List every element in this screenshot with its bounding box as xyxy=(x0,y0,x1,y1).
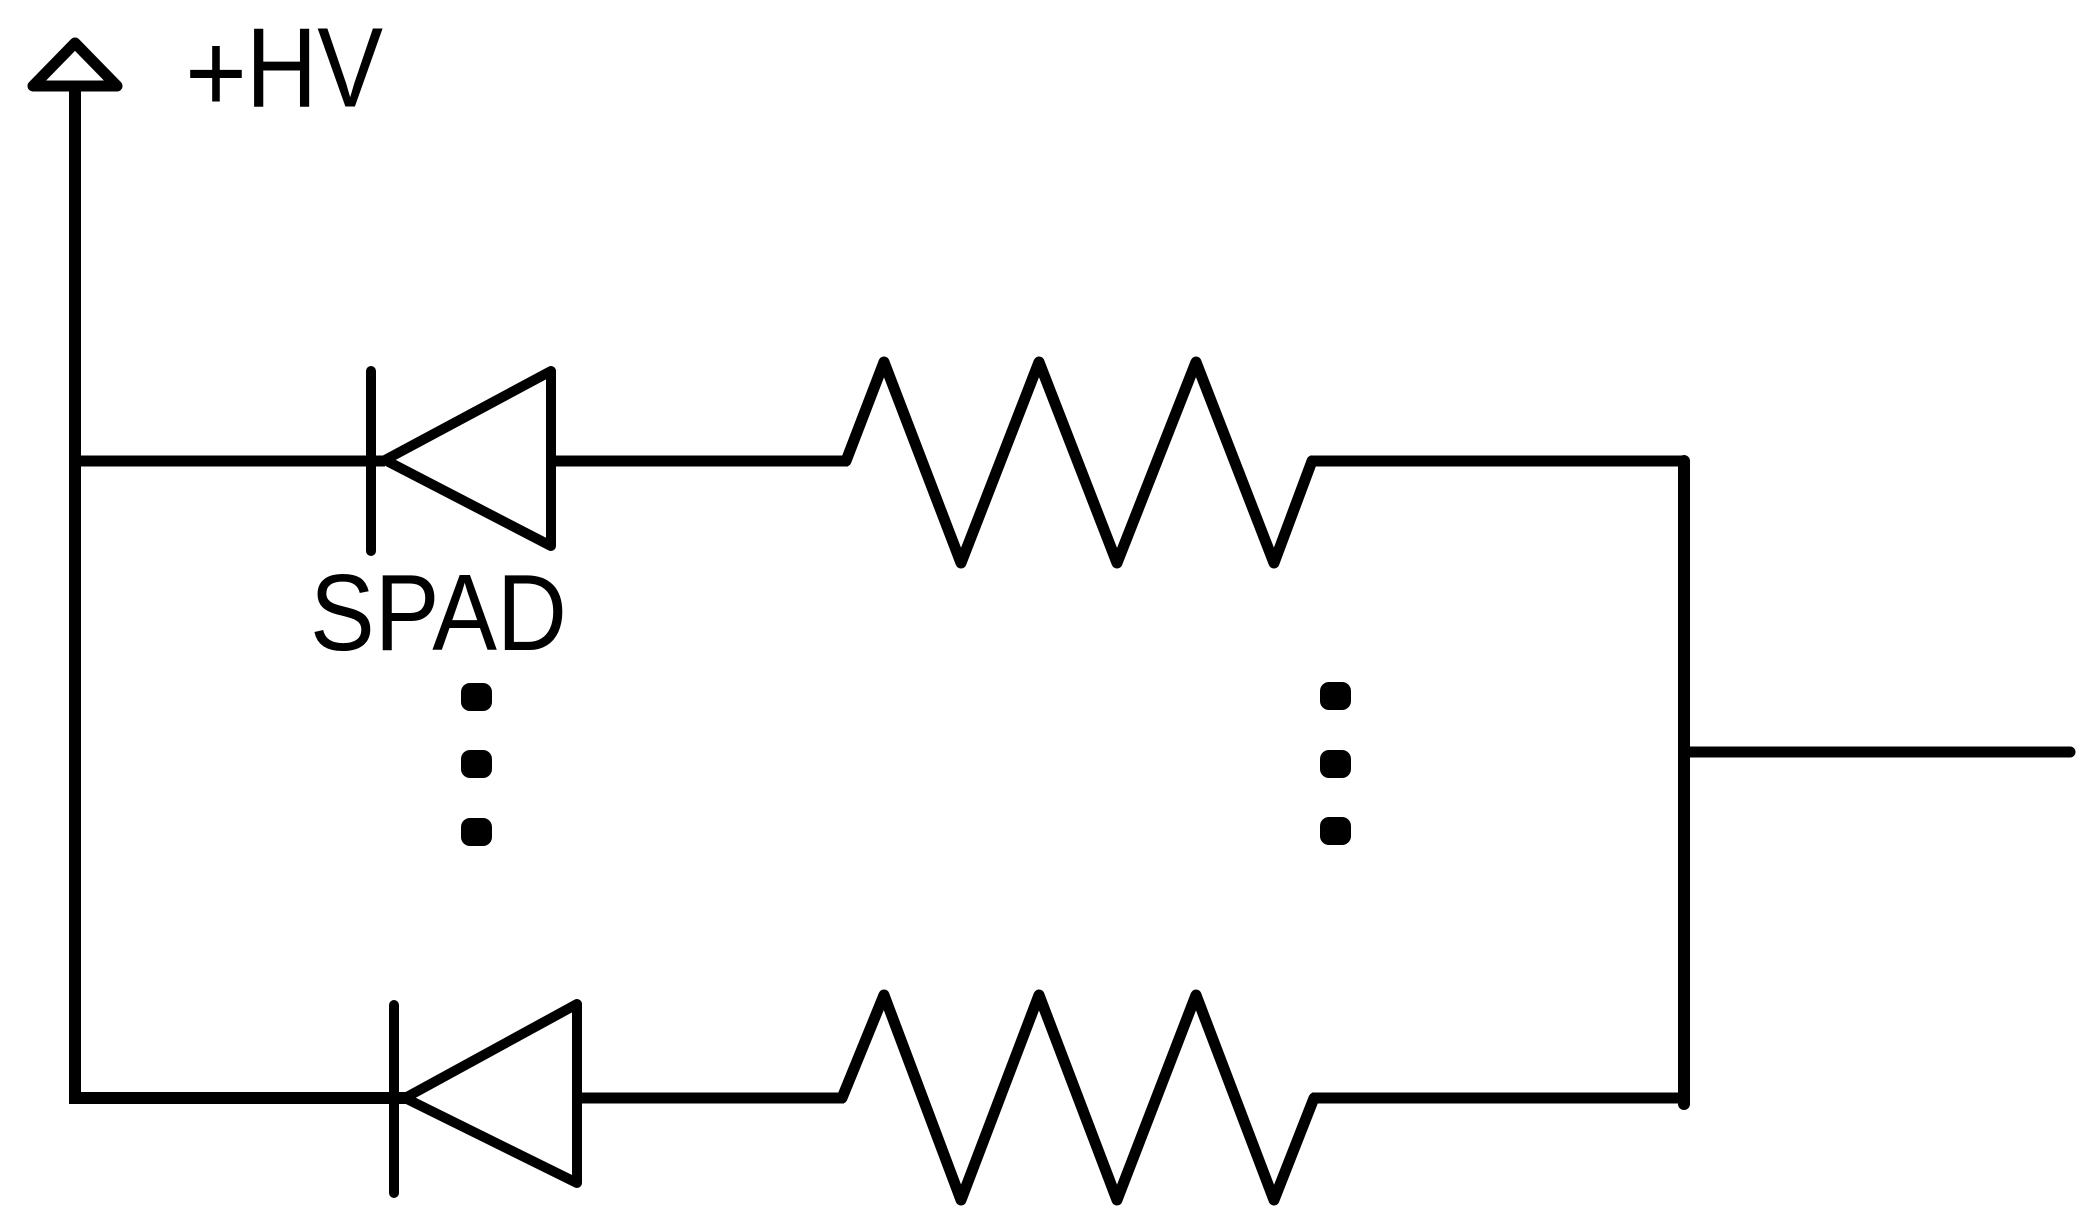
diode SPAD (bottom) xyxy=(394,1004,577,1193)
wire from top resistor to right bus xyxy=(1310,456,1684,467)
wire output xyxy=(1684,747,2070,758)
wire from bottom resistor to right bus xyxy=(1312,1093,1684,1104)
node right summing bus (vertical) xyxy=(1678,461,1690,1104)
ellipsis dots left column xyxy=(461,683,492,846)
wire from top diode anode to quench resistor xyxy=(551,456,848,467)
wire from bottom diode anode to quench resistor xyxy=(577,1093,844,1104)
resistor Rq (top quench resistor) xyxy=(846,362,1312,563)
power rail +HV arrow symbol xyxy=(33,43,117,86)
svg-text:SPAD: SPAD xyxy=(310,552,567,674)
diode SPAD (top) xyxy=(371,371,551,551)
wire top branch from left bus to SPAD cathode xyxy=(75,456,385,467)
svg-text:HV: HV xyxy=(246,5,383,131)
ellipsis dots right column xyxy=(1320,682,1351,845)
resistor Rq (bottom quench resistor) xyxy=(842,995,1314,1200)
label +HV xyxy=(185,5,383,136)
svg-text:+: + xyxy=(185,10,247,136)
label SPAD xyxy=(310,552,567,674)
wire left vertical bus from +HV down to bottom branch xyxy=(75,89,410,1098)
